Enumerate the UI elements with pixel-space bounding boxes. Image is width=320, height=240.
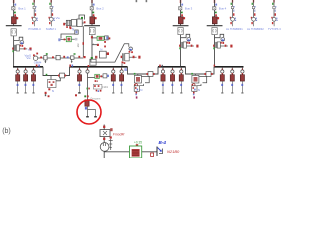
svg-text:x: x xyxy=(93,42,95,46)
svg-text:abc: abc xyxy=(76,42,80,47)
svg-text:Bus 3: Bus 3 xyxy=(185,6,193,10)
svg-text:SGBM 1: SGBM 1 xyxy=(46,27,57,31)
svg-text:N21B0: N21B0 xyxy=(167,149,180,154)
svg-text:B-4: B-4 xyxy=(159,140,167,145)
svg-text:Fmod#I: Fmod#I xyxy=(113,132,125,136)
svg-text:Bus 1: Bus 1 xyxy=(18,6,26,10)
svg-text:GBM4: GBM4 xyxy=(34,61,42,65)
svg-text:Vw: Vw xyxy=(28,48,33,52)
svg-text:+0.35: +0.35 xyxy=(134,141,142,145)
svg-text:N: N xyxy=(52,89,54,93)
svg-text:N: N xyxy=(100,47,102,51)
svg-text:PVGBM-U: PVGBM-U xyxy=(28,27,41,31)
svg-text:Bus 2: Bus 2 xyxy=(96,6,104,10)
svg-text:Bus 4: Bus 4 xyxy=(219,6,227,10)
svg-text:TVTVPS 3: TVTVPS 3 xyxy=(268,27,281,31)
svg-text:Vw: Vw xyxy=(56,16,61,20)
svg-text:FdFit: FdFit xyxy=(102,86,108,89)
svg-text:AL TNWBR31: AL TNWBR31 xyxy=(226,27,243,31)
svg-text:(b): (b) xyxy=(2,128,11,135)
svg-text:AL TNWBR32: AL TNWBR32 xyxy=(247,27,264,31)
